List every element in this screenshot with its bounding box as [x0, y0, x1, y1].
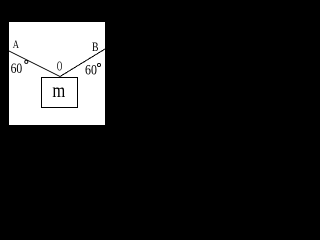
left degree symbol [25, 60, 28, 63]
svg-text:60: 60 [85, 61, 97, 77]
white diagram panel [9, 22, 105, 125]
mass box [42, 78, 78, 108]
svg-text:B: B [92, 41, 99, 55]
string OB (right cord) [60, 49, 105, 77]
svg-text:A: A [13, 39, 20, 52]
svg-text:m: m [52, 80, 65, 102]
right degree symbol [97, 63, 100, 66]
svg-text:60: 60 [11, 60, 23, 77]
string OA (left cord) [9, 51, 60, 77]
svg-text:O: O [57, 59, 62, 74]
